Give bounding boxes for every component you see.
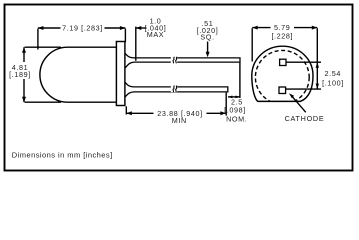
border frame — [5, 5, 353, 171]
svg-text:SQ.: SQ. — [200, 33, 214, 42]
svg-text:[.228]: [.228] — [271, 31, 293, 40]
svg-text:MIN: MIN — [172, 116, 187, 125]
dimension 2.54 [.100] lead spacing — [286, 62, 321, 89]
cathode lead (bottom, short) with meniscus bell — [125, 82, 228, 97]
dimension 7.19 [.283] body length — [38, 28, 126, 50]
svg-text:MAX: MAX — [147, 30, 164, 39]
svg-text:NOM.: NOM. — [226, 115, 247, 124]
cathode label with leader arrow — [293, 97, 306, 112]
svg-text:[.189]: [.189] — [9, 70, 31, 79]
anode lead pad (top square) — [280, 59, 286, 65]
svg-text:CATHODE: CATHODE — [285, 114, 325, 123]
cathode lead pad (bottom square) — [279, 87, 286, 94]
svg-text:[.100]: [.100] — [322, 78, 344, 87]
svg-text:Dimensions in mm [inches]: Dimensions in mm [inches] — [12, 150, 113, 159]
svg-text:2.54: 2.54 — [325, 69, 341, 78]
dimension 5.79 [.228] flange diameter — [252, 28, 317, 90]
dimension 2.5 [.098] NOM lead end offset — [228, 63, 240, 98]
LED body side view (dome + cylinder) — [40, 47, 117, 102]
bottom view: flange outline with flat (solid) — [252, 46, 313, 101]
dimension 1.0 [.040] MAX meniscus — [135, 27, 137, 61]
break symbol on anode lead — [171, 57, 177, 64]
bottom view: body outline (dashed circle) — [255, 50, 309, 104]
svg-text:7.19 [.283]: 7.19 [.283] — [62, 24, 103, 33]
dimension 23.88 [.940] MIN lead length — [126, 93, 226, 116]
break symbol on cathode lead — [171, 86, 177, 93]
anode lead (top, long) with meniscus bell — [125, 53, 240, 68]
svg-text:[.098]: [.098] — [224, 106, 246, 115]
dimension 4.81 [.189] body diameter — [24, 47, 61, 102]
flange of LED body — [116, 42, 125, 106]
